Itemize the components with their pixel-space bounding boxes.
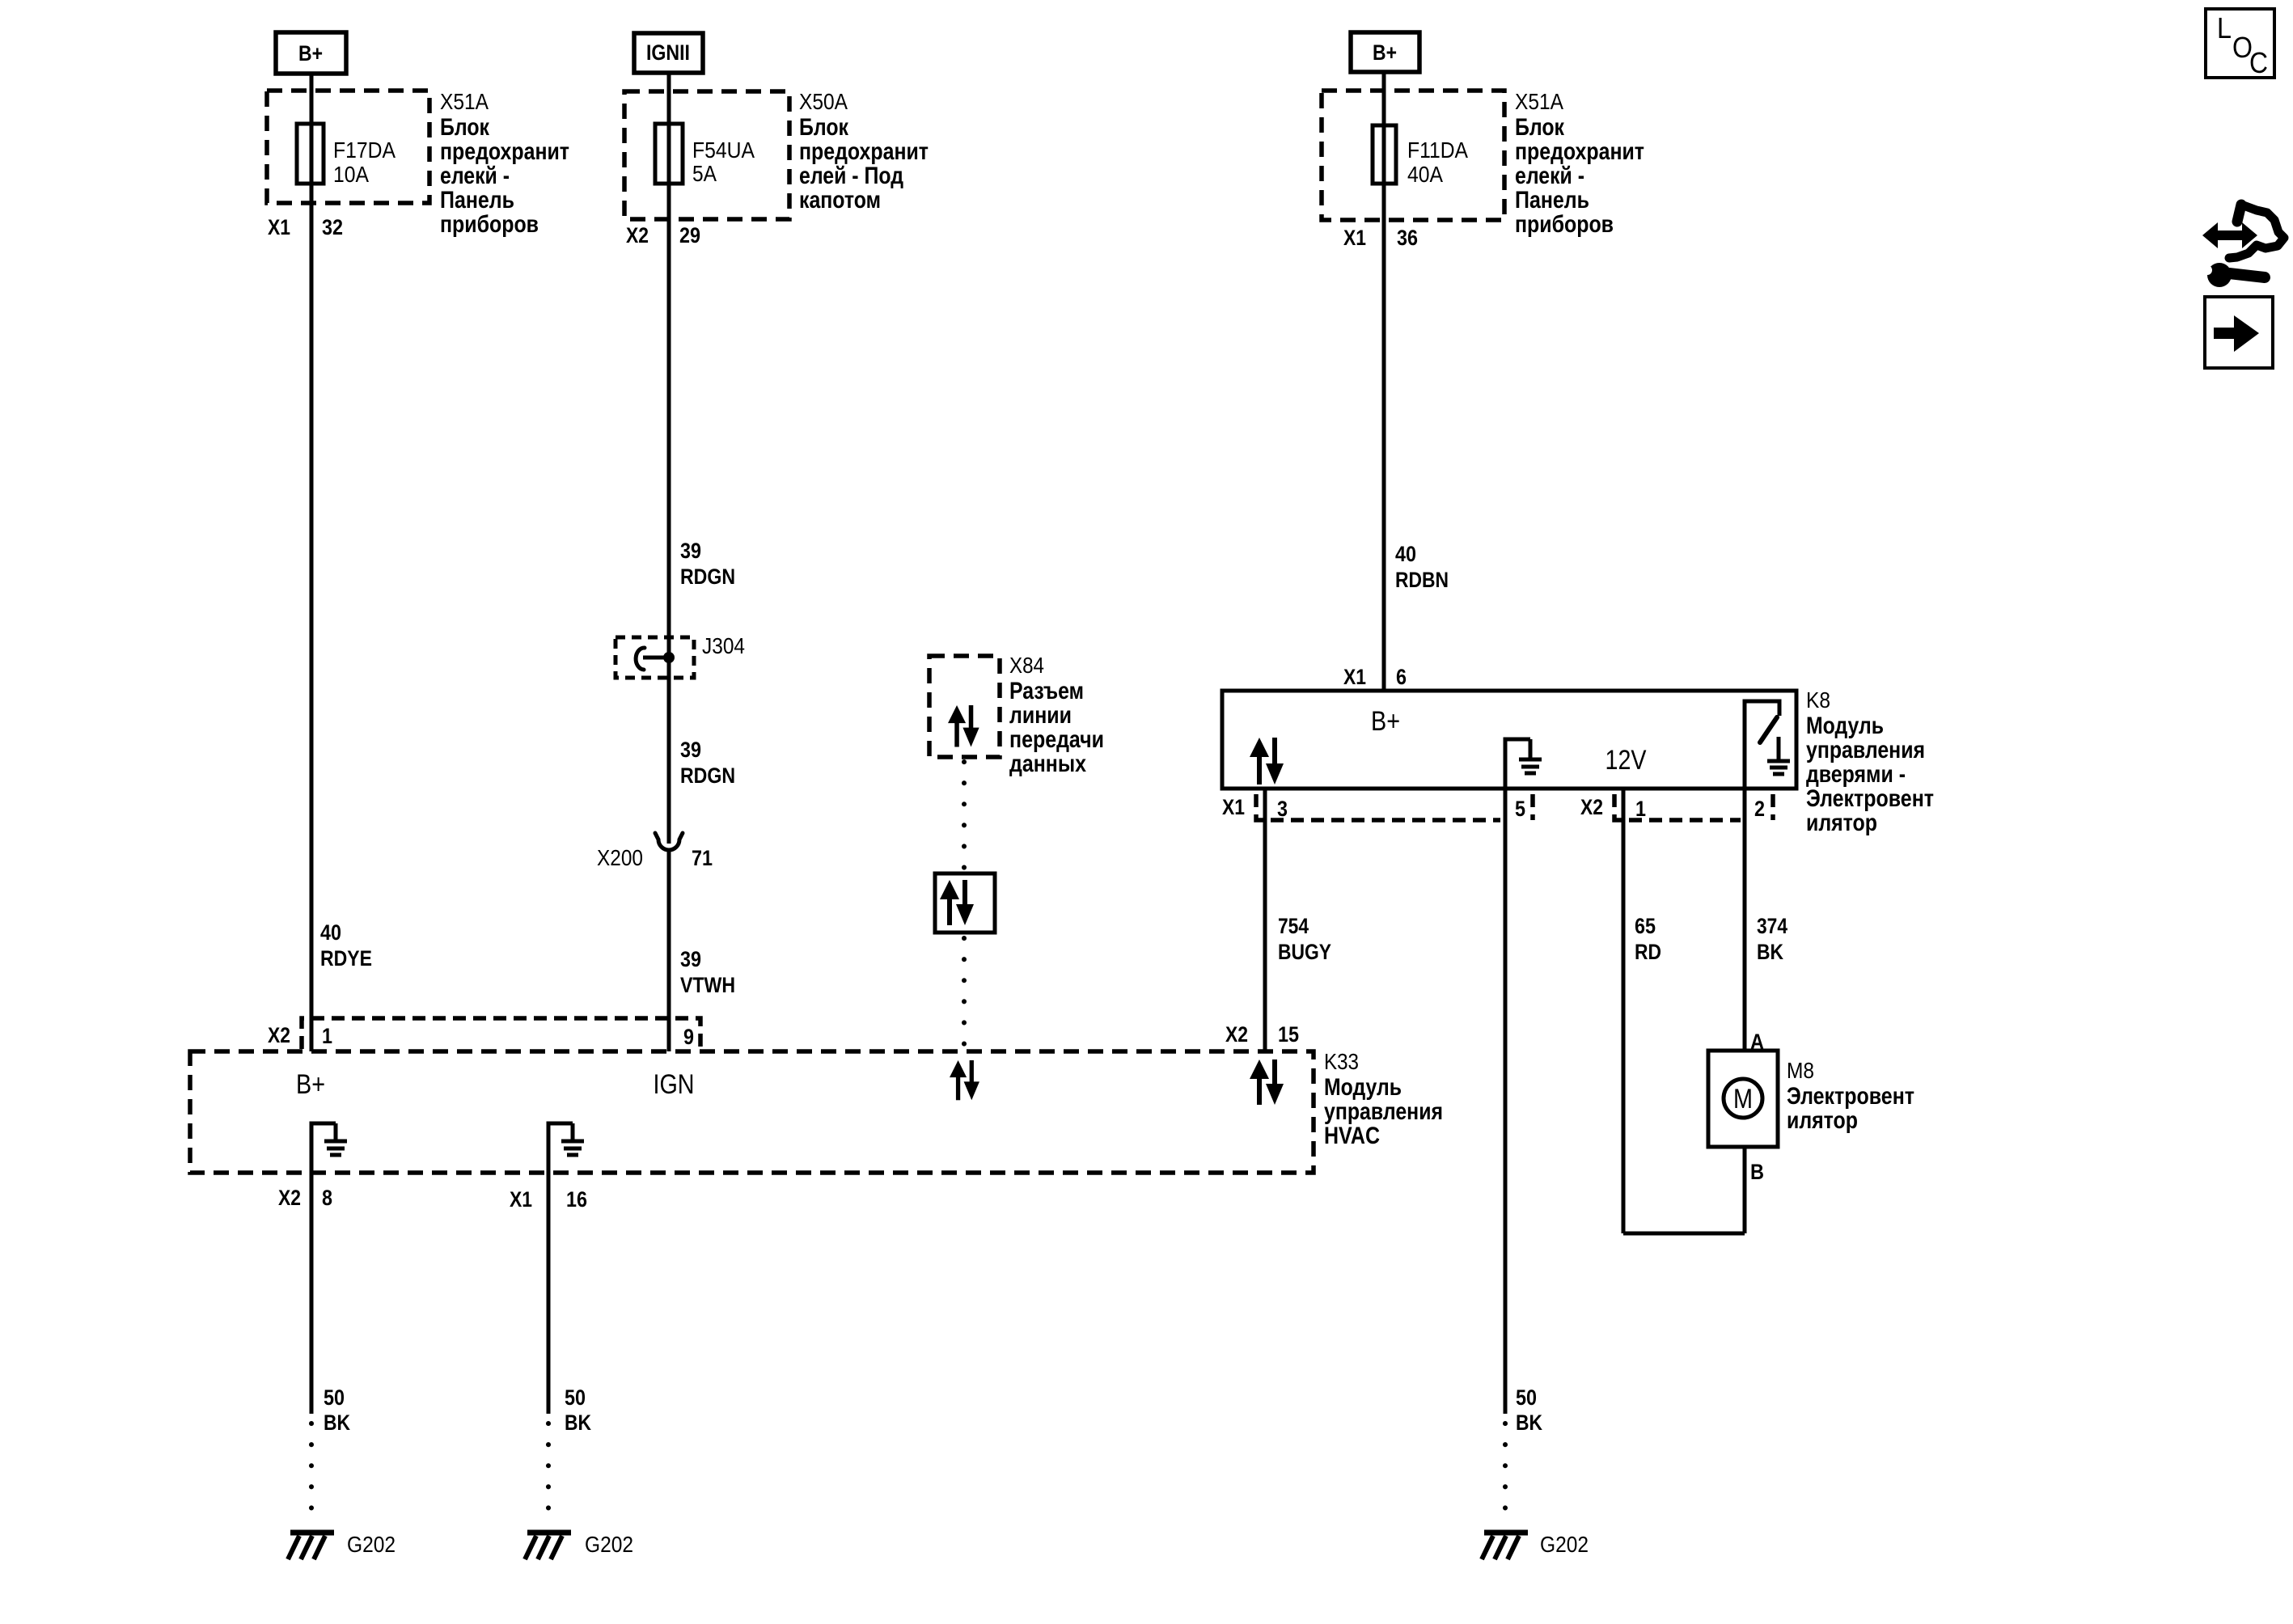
svg-text:X1: X1 <box>1343 226 1366 250</box>
svg-text:X2: X2 <box>278 1186 301 1210</box>
svg-text:X51A: X51A <box>1515 89 1563 114</box>
svg-text:36: 36 <box>1397 226 1418 250</box>
svg-text:8: 8 <box>322 1186 332 1210</box>
svg-text:IGNII: IGNII <box>646 40 690 65</box>
svg-text:X1: X1 <box>268 215 290 239</box>
svg-text:X2: X2 <box>1580 795 1603 819</box>
svg-text:Разъем: Разъем <box>1009 678 1084 704</box>
svg-text:39: 39 <box>680 947 701 971</box>
svg-text:приборов: приборов <box>440 211 539 238</box>
svg-text:65: 65 <box>1635 914 1656 938</box>
svg-text:32: 32 <box>322 215 343 239</box>
svg-text:10A: 10A <box>333 162 369 187</box>
svg-text:RDYE: RDYE <box>320 946 372 971</box>
svg-text:B+: B+ <box>296 1069 325 1100</box>
svg-text:RD: RD <box>1635 940 1661 964</box>
svg-text:дверями -: дверями - <box>1806 761 1906 788</box>
svg-text:Электровент: Электровент <box>1787 1083 1914 1110</box>
svg-text:J304: J304 <box>702 633 745 658</box>
svg-text:X50A: X50A <box>799 89 848 114</box>
svg-text:A: A <box>1750 1030 1764 1054</box>
svg-text:HVAC: HVAC <box>1324 1123 1380 1149</box>
svg-text:Блок: Блок <box>1515 114 1565 141</box>
svg-text:BK: BK <box>1757 940 1783 964</box>
svg-text:374: 374 <box>1757 914 1787 938</box>
svg-text:BK: BK <box>1516 1410 1542 1435</box>
svg-text:передачи: передачи <box>1009 726 1104 753</box>
svg-text:Блок: Блок <box>799 114 849 141</box>
svg-text:елей - Под: елей - Под <box>799 163 903 189</box>
svg-text:линии: линии <box>1009 702 1072 729</box>
svg-text:капотом: капотом <box>799 187 881 214</box>
svg-text:B+: B+ <box>298 41 323 66</box>
svg-text:39: 39 <box>680 738 701 762</box>
svg-text:39: 39 <box>680 539 701 563</box>
svg-text:Панель: Панель <box>1515 187 1589 214</box>
svg-text:9: 9 <box>683 1025 694 1049</box>
svg-text:50: 50 <box>565 1385 586 1410</box>
svg-text:управления: управления <box>1324 1098 1443 1125</box>
svg-text:40A: 40A <box>1407 162 1443 187</box>
svg-text:X1: X1 <box>1343 665 1366 689</box>
svg-text:предохранит: предохранит <box>1515 138 1644 165</box>
svg-text:F11DA: F11DA <box>1407 137 1468 163</box>
svg-text:29: 29 <box>679 223 700 247</box>
svg-text:G202: G202 <box>1540 1532 1589 1557</box>
svg-text:B+: B+ <box>1371 706 1400 737</box>
svg-text:Электровент: Электровент <box>1806 785 1934 812</box>
svg-text:5A: 5A <box>692 161 717 186</box>
svg-text:50: 50 <box>1516 1385 1537 1410</box>
svg-text:1: 1 <box>1635 797 1646 821</box>
svg-text:F54UA: F54UA <box>692 137 755 163</box>
svg-text:M8: M8 <box>1787 1058 1814 1083</box>
svg-text:RDGN: RDGN <box>680 763 735 788</box>
svg-text:X2: X2 <box>626 223 649 247</box>
svg-text:BK: BK <box>565 1410 591 1435</box>
svg-text:15: 15 <box>1278 1022 1299 1047</box>
svg-text:елекй -: елекй - <box>440 163 510 189</box>
svg-text:X84: X84 <box>1009 653 1044 678</box>
svg-text:X51A: X51A <box>440 89 489 114</box>
svg-text:Панель: Панель <box>440 187 514 214</box>
svg-text:RDGN: RDGN <box>680 565 735 589</box>
svg-text:X1: X1 <box>510 1187 532 1212</box>
svg-text:40: 40 <box>320 920 341 945</box>
svg-text:40: 40 <box>1395 542 1416 566</box>
svg-text:F17DA: F17DA <box>333 137 396 163</box>
svg-text:6: 6 <box>1396 665 1407 689</box>
svg-text:IGN: IGN <box>654 1069 695 1100</box>
svg-text:предохранит: предохранит <box>440 138 569 165</box>
svg-text:B+: B+ <box>1373 40 1397 65</box>
svg-text:71: 71 <box>692 846 713 870</box>
svg-text:1: 1 <box>322 1024 332 1048</box>
svg-text:C: C <box>2249 46 2268 79</box>
svg-text:BK: BK <box>324 1410 350 1435</box>
svg-text:G202: G202 <box>585 1532 633 1557</box>
svg-text:2: 2 <box>1754 797 1765 821</box>
svg-text:BUGY: BUGY <box>1278 940 1331 964</box>
svg-text:5: 5 <box>1515 797 1525 821</box>
svg-text:Модуль: Модуль <box>1324 1074 1402 1101</box>
svg-text:K33: K33 <box>1324 1049 1359 1074</box>
svg-text:Модуль: Модуль <box>1806 713 1884 739</box>
svg-text:приборов: приборов <box>1515 211 1614 238</box>
svg-text:50: 50 <box>324 1385 345 1410</box>
svg-text:елекй -: елекй - <box>1515 163 1584 189</box>
svg-text:754: 754 <box>1278 914 1309 938</box>
svg-text:илятор: илятор <box>1806 810 1877 836</box>
svg-text:G202: G202 <box>347 1532 396 1557</box>
svg-text:X2: X2 <box>268 1023 290 1047</box>
svg-text:X200: X200 <box>597 845 643 870</box>
svg-text:3: 3 <box>1277 797 1288 821</box>
svg-text:данных: данных <box>1009 751 1086 777</box>
svg-text:B: B <box>1750 1160 1764 1184</box>
svg-text:12V: 12V <box>1606 745 1647 776</box>
svg-text:предохранит: предохранит <box>799 138 929 165</box>
svg-text:управления: управления <box>1806 737 1925 763</box>
svg-text:M: M <box>1733 1084 1753 1114</box>
svg-text:L: L <box>2217 11 2232 44</box>
svg-text:илятор: илятор <box>1787 1107 1858 1134</box>
svg-text:K8: K8 <box>1806 687 1830 713</box>
svg-text:VTWH: VTWH <box>680 973 735 997</box>
svg-text:Блок: Блок <box>440 114 490 141</box>
svg-text:RDBN: RDBN <box>1395 568 1449 592</box>
svg-text:16: 16 <box>566 1187 587 1212</box>
svg-text:X1: X1 <box>1222 795 1245 819</box>
svg-text:X2: X2 <box>1225 1022 1248 1047</box>
